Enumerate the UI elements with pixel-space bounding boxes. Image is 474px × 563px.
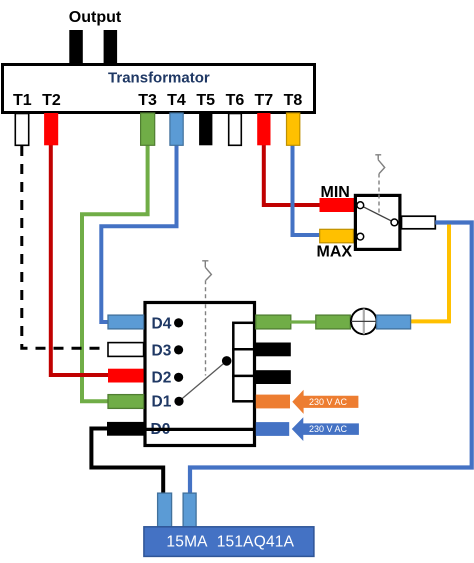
wire T3 to D1 (green) xyxy=(82,144,148,401)
wire T1 to D3 (dashed black) xyxy=(22,146,107,348)
terminal right blue xyxy=(256,422,289,436)
arrow 230 V AC neutral (blue) xyxy=(292,417,359,441)
terminal T7 (red) xyxy=(257,113,270,145)
selector contact block divider 1 xyxy=(232,348,256,351)
svg-text:Output: Output xyxy=(69,9,122,26)
selector contact block inner rect xyxy=(233,323,254,402)
fuse terminal 2 (light blue) xyxy=(183,493,196,527)
switch S1 contact bottom-left xyxy=(357,233,364,240)
switch S1 actuator dashed link xyxy=(378,174,380,215)
terminal T8 (yellow) xyxy=(287,113,300,145)
terminal MAX (yellow) xyxy=(320,229,354,243)
svg-text:Transformator: Transformator xyxy=(108,70,210,87)
selector actuator T-bar xyxy=(202,261,208,268)
terminal D0 (black) xyxy=(107,422,144,436)
fuse terminal 1 (light blue) xyxy=(158,493,172,527)
svg-text:T7: T7 xyxy=(254,92,273,109)
svg-text:T6: T6 xyxy=(226,92,245,109)
svg-text:T1: T1 xyxy=(13,92,32,109)
node D1 dot xyxy=(174,397,183,406)
node D3 dot xyxy=(174,345,183,354)
arrow 230 V AC live (orange) xyxy=(292,390,358,414)
switch S1 box (MIN/MAX) xyxy=(355,195,400,249)
selector contact block divider 2 xyxy=(232,375,256,378)
terminal D4 (blue) xyxy=(108,315,144,329)
terminal T6 (white) xyxy=(229,114,242,146)
switch S1 contact top-left xyxy=(357,202,364,209)
terminal right green xyxy=(256,315,291,329)
terminal T1 (white) xyxy=(15,114,28,146)
terminal lamp right (blue) xyxy=(377,315,411,329)
terminal right orange xyxy=(256,395,290,409)
wire D0 to fuse (black) xyxy=(91,429,163,495)
svg-text:T3: T3 xyxy=(138,92,157,109)
main selector switch box xyxy=(145,303,255,446)
output terminal 1 xyxy=(69,30,83,64)
selector actuator dashed link xyxy=(205,280,207,375)
svg-text:T8: T8 xyxy=(284,92,303,109)
selector actuator spring xyxy=(205,267,211,280)
svg-text:D3: D3 xyxy=(152,342,172,359)
svg-text:T4: T4 xyxy=(167,92,186,109)
terminal MIN (red) xyxy=(320,198,355,212)
terminal lamp left (green) xyxy=(316,315,351,329)
svg-text:D1: D1 xyxy=(152,394,172,411)
terminal T2 (red) xyxy=(44,113,58,145)
transformer box xyxy=(3,65,315,113)
svg-text:230 V AC: 230 V AC xyxy=(309,424,348,434)
terminal D3 (white) xyxy=(108,343,144,357)
switch S1 actuator T-bar xyxy=(375,155,381,160)
terminal right black 2 xyxy=(256,370,291,384)
svg-text:230 V AC: 230 V AC xyxy=(309,397,348,407)
svg-text:MAX: MAX xyxy=(317,243,353,260)
svg-text:D4: D4 xyxy=(152,315,172,332)
wire T7 to MIN (dark red) xyxy=(264,144,320,205)
svg-text:T5: T5 xyxy=(196,92,215,109)
selector common dot xyxy=(222,356,232,366)
terminal switch S1 output (white) xyxy=(402,216,436,229)
selector lever xyxy=(179,361,227,401)
wire switch S1 to bottom terminal (blue) xyxy=(190,223,472,495)
switch S1 lever xyxy=(363,207,392,222)
wire T8 to MAX (blue) xyxy=(293,144,321,235)
lamp L1 xyxy=(351,309,377,335)
svg-text:D2: D2 xyxy=(152,370,172,387)
wire D0 through box (black) xyxy=(144,428,257,431)
node D4 dot xyxy=(174,318,183,327)
terminal D2 (red) xyxy=(108,369,144,383)
terminal D1 (green) xyxy=(108,395,144,409)
svg-text:15MA 151AQ41A: 15MA 151AQ41A xyxy=(166,533,294,550)
switch S1 contact right xyxy=(391,219,398,226)
node D2 dot xyxy=(174,373,183,382)
wire T2 to D2 (red) xyxy=(51,144,110,375)
terminal T3 (green) xyxy=(141,113,155,145)
terminal T4 (blue) xyxy=(170,113,183,145)
wire T4 to D4 (blue) xyxy=(101,144,176,322)
terminal right black 1 xyxy=(256,343,291,357)
svg-text:T2: T2 xyxy=(42,92,61,109)
fuse box 15MA 151AQ41A xyxy=(144,527,314,557)
terminal T5 (black) xyxy=(199,113,212,145)
output terminal 2 xyxy=(104,30,118,64)
switch S1 actuator spring xyxy=(378,160,385,174)
wire lamp to switch wire (yellow) xyxy=(411,225,449,322)
wire green link to lamp xyxy=(290,320,317,323)
lamp cross horizontal xyxy=(351,320,377,322)
lamp cross vertical xyxy=(363,309,365,335)
